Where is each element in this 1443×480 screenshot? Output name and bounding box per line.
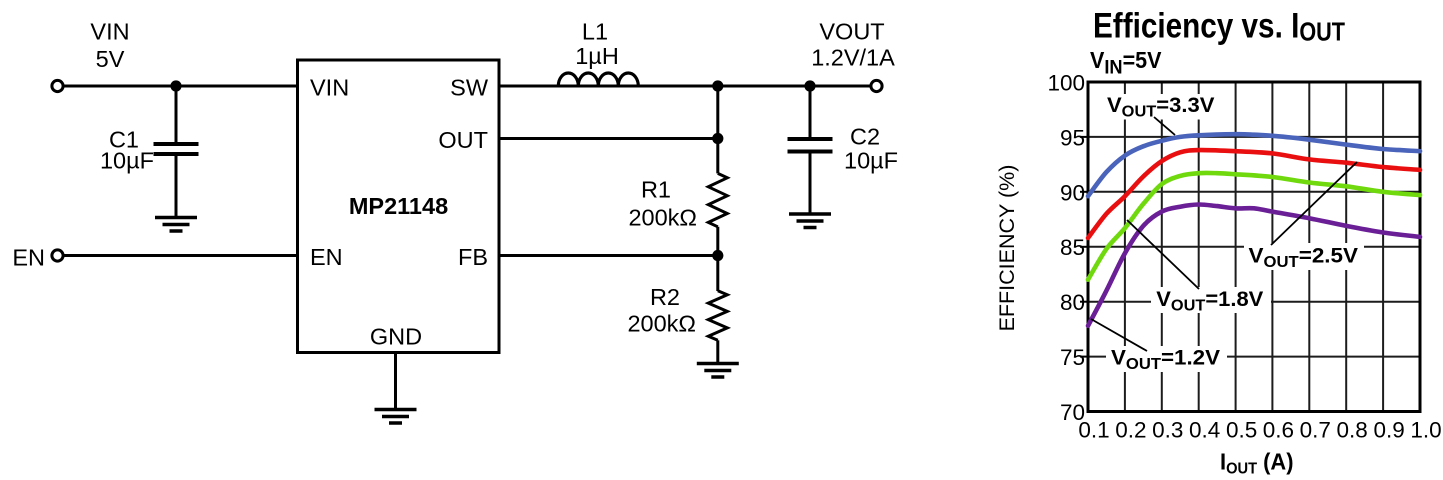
svg-text:GND: GND <box>370 324 422 350</box>
svg-text:0.5: 0.5 <box>1226 418 1257 443</box>
svg-text:200kΩ: 200kΩ <box>627 311 696 337</box>
svg-text:5V: 5V <box>96 46 125 72</box>
svg-text:100: 100 <box>1047 71 1085 96</box>
svg-text:OUT: OUT <box>438 127 488 153</box>
svg-text:0.1: 0.1 <box>1078 418 1109 443</box>
svg-text:0.9: 0.9 <box>1373 418 1404 443</box>
svg-text:10µF: 10µF <box>100 148 154 174</box>
svg-text:0.4: 0.4 <box>1189 418 1220 443</box>
svg-text:0.2: 0.2 <box>1115 418 1146 443</box>
svg-text:MP21148: MP21148 <box>349 193 448 219</box>
svg-text:10µF: 10µF <box>844 148 898 174</box>
svg-text:1.2V/1A: 1.2V/1A <box>811 45 895 71</box>
svg-text:VIN: VIN <box>310 75 349 101</box>
svg-text:EN: EN <box>12 245 45 271</box>
svg-text:90: 90 <box>1060 180 1085 205</box>
svg-text:C2: C2 <box>850 124 880 150</box>
svg-text:VIN: VIN <box>90 19 129 45</box>
svg-text:FB: FB <box>458 244 488 270</box>
svg-text:0.6: 0.6 <box>1263 418 1294 443</box>
svg-text:1.0: 1.0 <box>1410 418 1441 443</box>
svg-text:EFFICIENCY (%): EFFICIENCY (%) <box>995 165 1019 332</box>
svg-text:0.8: 0.8 <box>1337 418 1368 443</box>
svg-text:VOUT: VOUT <box>819 19 884 45</box>
svg-text:R2: R2 <box>650 284 680 310</box>
svg-text:1µH: 1µH <box>575 43 619 69</box>
svg-text:200kΩ: 200kΩ <box>628 205 697 231</box>
svg-text:0.3: 0.3 <box>1152 418 1183 443</box>
svg-text:75: 75 <box>1060 345 1085 370</box>
svg-text:R1: R1 <box>641 177 671 203</box>
svg-text:0.7: 0.7 <box>1300 418 1331 443</box>
svg-text:80: 80 <box>1060 290 1085 315</box>
svg-text:SW: SW <box>450 75 489 101</box>
svg-text:95: 95 <box>1060 125 1085 150</box>
svg-text:EN: EN <box>310 244 343 270</box>
svg-text:L1: L1 <box>582 19 608 45</box>
svg-text:85: 85 <box>1060 235 1085 260</box>
